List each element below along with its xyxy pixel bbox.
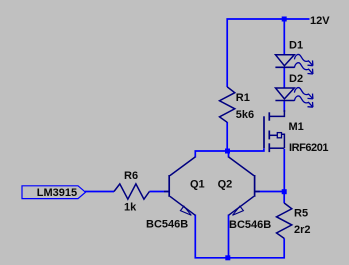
svg-text:D1: D1 (289, 39, 303, 51)
svg-text:R6: R6 (124, 170, 138, 182)
svg-text:R1: R1 (236, 92, 250, 104)
svg-text:IRF6201: IRF6201 (289, 142, 329, 154)
svg-text:Q1: Q1 (190, 178, 205, 190)
svg-text:2r2: 2r2 (294, 224, 311, 236)
svg-text:M1: M1 (289, 121, 304, 133)
svg-text:5k6: 5k6 (236, 109, 254, 121)
svg-text:BC546B: BC546B (146, 218, 188, 230)
svg-text:LM3915: LM3915 (37, 187, 77, 199)
svg-text:R5: R5 (294, 208, 308, 220)
svg-text:BC546B: BC546B (229, 219, 271, 231)
svg-text:12V: 12V (310, 15, 330, 27)
svg-text:1k: 1k (124, 202, 137, 214)
svg-text:Q2: Q2 (218, 178, 233, 190)
svg-text:D2: D2 (289, 73, 303, 85)
